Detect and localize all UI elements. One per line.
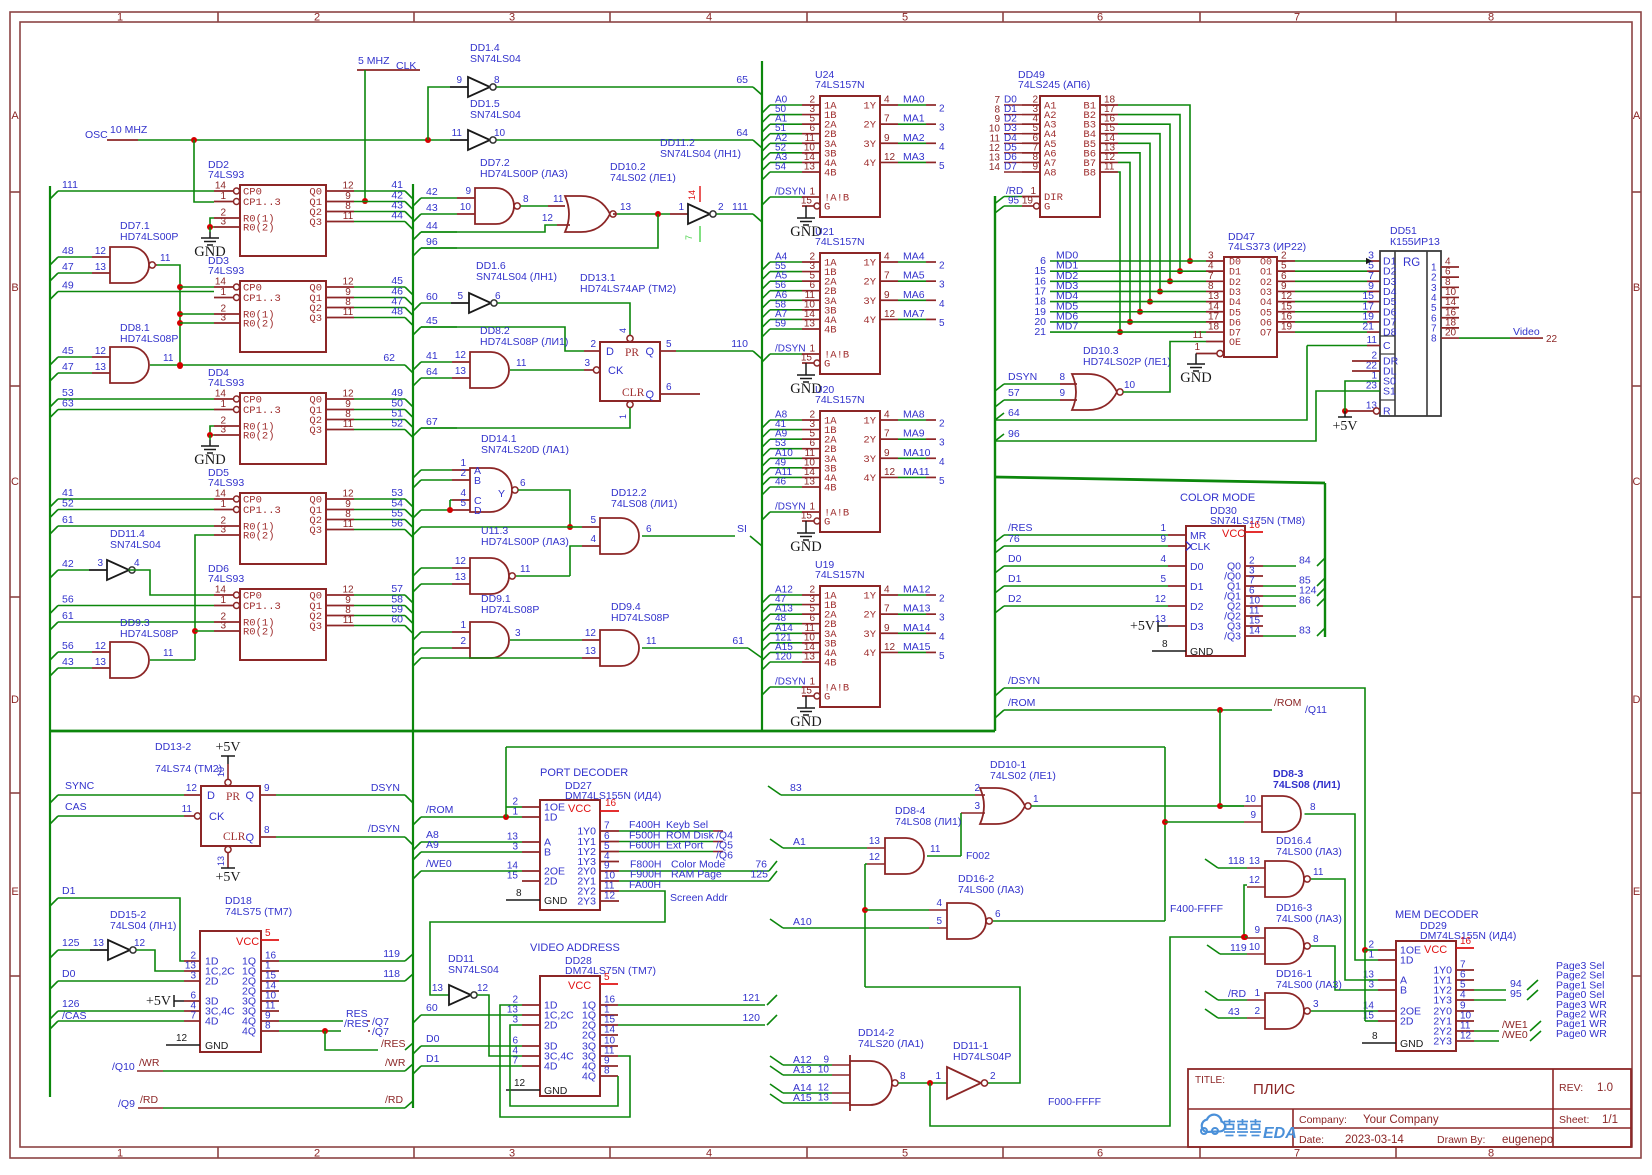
DD27 pin 6 1Y1 [600,841,619,843]
DD8-3 pin 10 input from /ROM [1244,805,1262,807]
U19 pin 14 4A net A15 [762,652,770,660]
svg-text:G: G [824,359,830,371]
svg-text:13: 13 [869,836,881,847]
svg-text:5: 5 [457,291,463,302]
DD29 pin 15 2D [1378,1020,1396,1022]
svg-text:83: 83 [1299,625,1311,637]
svg-text:4: 4 [706,12,712,24]
DD49 pin 16 B3 wire to MD2 [1100,123,1118,125]
net 57 to DD10.3 pin 9 [995,400,1004,407]
svg-text:6: 6 [495,291,501,302]
svg-text:S1: S1 [1383,386,1396,398]
net /RD to DD16-1 pin 1 [1205,991,1218,1000]
DD28 pin 10 3Q [600,1045,618,1047]
svg-text:Q3: Q3 [309,313,322,325]
DD27 pin 9 2Y0 [600,870,619,872]
svg-text:2Y: 2Y [863,277,876,289]
svg-text:3: 3 [939,613,945,624]
U20 pin 11 3A net A10 [762,458,770,466]
svg-text:4D: 4D [205,1016,219,1028]
svg-text:CLK: CLK [1190,541,1210,553]
wire DD5 R0(2) down to DD6 R0(2) / DD9.3 out [195,535,214,660]
svg-text:3: 3 [509,1148,515,1160]
svg-text:45: 45 [62,345,74,357]
U24 pin 1 !A!B net /DSYN [762,197,770,205]
svg-text:2: 2 [314,1148,320,1160]
DD47 pin 19 O7 wire to DD51 D8 [1277,331,1295,333]
svg-text:10: 10 [1245,794,1257,805]
svg-text:14: 14 [215,389,227,400]
net RES /Q7 DD18 4Q [279,1020,343,1022]
svg-text:HD74LS74AP (TM2): HD74LS74AP (TM2) [580,283,676,295]
DD6 pin 14 CP0 [214,594,233,596]
svg-text:Q: Q [645,346,654,358]
svg-text:7: 7 [1294,1148,1300,1160]
DD5 pin 12 Q0 [326,498,354,500]
svg-text:3: 3 [939,438,945,449]
wire net 57 to right rail [354,594,405,596]
wire DD7.1 output to DD3 CP0 and R0 pins [157,265,180,366]
bus entry on rail 413 [413,871,421,879]
svg-text:20: 20 [1445,328,1457,339]
svg-text:6: 6 [995,909,1001,920]
svg-text:G: G [824,517,830,529]
svg-text:12: 12 [884,152,896,163]
net CAS to DD13-2 CK pin 11 [50,816,58,824]
svg-text:60: 60 [426,1002,438,1014]
svg-text:12: 12 [342,389,354,400]
svg-text:/Q7: /Q7 [372,1026,389,1038]
svg-text:D: D [11,694,19,706]
svg-text:4B: 4B [824,324,837,336]
svg-text:9: 9 [264,783,270,794]
svg-text:К155ИР13: К155ИР13 [1390,236,1440,248]
svg-text:HD74LS08P: HD74LS08P [120,628,178,640]
svg-text:5: 5 [939,651,945,662]
wire OSC to DD2 CP1 [194,140,214,202]
svg-text:18: 18 [1208,322,1220,333]
DD13.1 /Q pin 6 stub [660,393,700,395]
DD49 pin 13 B6 wire to MD5 [1100,152,1118,154]
DD28 pin 11 3Q [600,1055,618,1057]
svg-text:R0(2): R0(2) [243,531,275,543]
DD8.2 output 11 to DD13.1 CK [510,369,584,371]
U21 pin 13 4B net 59 [762,329,770,337]
bus entry net 60 on rail 413 [413,303,421,311]
svg-text:+5V: +5V [1332,419,1357,434]
svg-text:10 MHZ: 10 MHZ [110,124,148,136]
U21 pin 7 2Y net MA5 [880,280,898,282]
svg-text:1: 1 [220,499,226,510]
svg-text:OE: OE [1229,338,1241,349]
svg-text:5 MHZ: 5 MHZ [358,55,390,67]
svg-text:59: 59 [775,318,787,329]
svg-text:74LS245 (АП6): 74LS245 (АП6) [1018,79,1090,91]
DD28 pin 3 2D [522,1024,540,1026]
wire DD11-1 output to F000 net [865,987,1020,1083]
svg-text:14: 14 [215,489,227,500]
svg-text:EDA: EDA [1263,1125,1297,1142]
svg-text:3: 3 [220,313,226,324]
left bus rail vertical [49,186,51,1097]
svg-text:11: 11 [343,519,354,530]
DD4 pin 14 CP0 [214,398,233,400]
DD29 pin 14 2OE [1378,1010,1396,1012]
DD2 pin 8 Q2 [326,211,354,213]
svg-text:D2: D2 [1008,593,1022,605]
DD8.1 pin 13 input net 47 [50,373,58,381]
svg-text:/Q3: /Q3 [1224,631,1241,643]
svg-text:12: 12 [342,489,354,500]
svg-text:Q3: Q3 [309,525,322,537]
wire F400 junction up to DD16.4 pin 12 [1244,936,1245,938]
DD28 pin 12 GND [506,1089,540,1091]
DD8.1 pin 12 input net 45 [50,357,58,365]
svg-text:D1: D1 [1008,573,1022,585]
net A1 to DD8-4 pin 13 [770,839,783,848]
DD47 pin 6 O2 wire to DD51 D3 [1277,280,1295,282]
svg-text:3: 3 [220,425,226,436]
svg-text:9: 9 [1254,925,1260,936]
svg-text:49: 49 [62,280,74,292]
svg-text:MA4: MA4 [903,251,925,263]
svg-text:11: 11 [1193,330,1204,341]
wire net 58 to right rail [354,605,405,607]
svg-text:10: 10 [460,202,472,213]
svg-text:HD74LS02P (ЛЕ1): HD74LS02P (ЛЕ1) [1083,356,1171,368]
svg-text:4: 4 [939,142,945,153]
svg-text:8: 8 [1310,802,1316,813]
U20 pin 2 1A net A8 [762,420,770,428]
net 95 DD29 1Y3 [1474,999,1506,1001]
svg-text:3Y: 3Y [863,629,876,641]
bus entry on rail 413 [413,842,421,850]
svg-text:57: 57 [1008,387,1020,399]
bus entry on rail 413 [413,568,421,576]
svg-text:4: 4 [884,95,890,106]
wire net 45 to right rail [354,286,405,288]
DD2 pin 1 CP1..3 [214,201,233,203]
svg-text:D7: D7 [1004,161,1017,172]
svg-text:13: 13 [455,572,467,583]
U20 pin 14 4A net A11 [762,477,770,485]
svg-text:5: 5 [460,498,466,509]
DD47 pin 12 O4 wire to DD51 D5 [1277,301,1295,303]
wire net 56 to right rail [354,529,405,531]
svg-text:13: 13 [216,856,226,866]
svg-text:13: 13 [585,646,597,657]
wire net 59 to right rail [354,615,405,617]
svg-text:62: 62 [383,352,395,364]
net A15 to DD14-2 pin 13 [770,1094,783,1103]
DD11.2 power pin 7 flag [699,226,701,242]
bus entry net 42 on rail 413 [413,198,421,206]
svg-text:4: 4 [590,534,596,545]
svg-text:21: 21 [1362,321,1374,333]
svg-text:HD74LS08P: HD74LS08P [481,604,539,616]
U24 pin 11 3A net A2 [762,143,770,151]
svg-text:/RD: /RD [1228,988,1247,1000]
svg-text:96: 96 [1008,428,1020,440]
DD6 pin 12 Q0 [326,594,354,596]
net F600H Ext Port /Q6 [619,851,713,853]
svg-text:2: 2 [460,636,466,647]
DD27 pin 12 2Y3 [600,900,619,902]
U24 pin 6 2B net 51 [762,134,770,142]
svg-text:12: 12 [884,309,896,320]
svg-text:CK: CK [608,365,624,377]
svg-text:74LS93: 74LS93 [208,265,244,277]
U20 pin 4 1Y net MA8 [880,419,898,421]
svg-text:74LS02 (ЛЕ1): 74LS02 (ЛЕ1) [610,172,676,184]
svg-text:4: 4 [939,632,945,643]
DD5 pin 1 CP1..3 [214,509,233,511]
DD11.2 power pin 14 flag [699,186,701,202]
svg-text:1: 1 [618,414,628,419]
DD5 pin 3 R0(2) [214,534,240,536]
DD11.4 pin 3 input net 42 [50,570,58,578]
wire net 46 to right rail [354,297,405,299]
svg-text:R0(2): R0(2) [243,431,275,443]
svg-text:VCC: VCC [1424,944,1447,956]
svg-text:74LS157N: 74LS157N [815,394,865,406]
svg-text:5: 5 [1160,574,1166,585]
net /WE1 DD29 2Y2 [1474,1030,1499,1032]
svg-text:2: 2 [314,12,320,24]
DD6 pin 8 Q2 [326,615,354,617]
U21 pin 3 1B net 55 [762,272,770,280]
bus entry on rail 413 [413,510,421,518]
U21 pin 5 2A net A5 [762,281,770,289]
svg-text:3: 3 [220,525,226,536]
svg-text:8: 8 [264,825,270,836]
svg-text:8: 8 [1431,334,1437,345]
DD18 pin 9 4Q [261,1020,279,1022]
svg-text:11: 11 [1367,335,1378,346]
DD51 pin 13 R with bubble and +5V [1373,408,1379,414]
thick horizontal bus wire divider [50,730,995,733]
svg-text:GND: GND [544,1085,568,1097]
svg-text:MA1: MA1 [903,113,925,125]
svg-text:47: 47 [62,261,74,273]
svg-text:GND: GND [790,539,821,555]
DD30 pin 1 MR net /RES [995,535,1004,542]
svg-text:B: B [474,475,481,487]
svg-text:61: 61 [62,514,74,526]
svg-text:12: 12 [134,938,146,949]
U21 pin 15 G with ground [802,362,814,364]
net F900H RAM Page 125 [619,880,769,882]
net 121 DD28 1Q [618,1004,765,1006]
svg-text:F400-FFFF: F400-FFFF [1170,903,1223,915]
DD18 pin 14 2Q [261,990,279,992]
svg-text:4: 4 [884,585,890,596]
net 53 to DD4 CP0 [50,399,58,407]
svg-text:3: 3 [1368,980,1374,991]
svg-text:19: 19 [1022,196,1034,207]
net 41 to DD5 CP0 [50,499,58,507]
U24 pin 2 1A net A0 [762,105,770,113]
svg-text:MA15: MA15 [903,641,931,653]
svg-text:74LS93: 74LS93 [208,477,244,489]
U24 pin 4 1Y net MA0 [880,104,898,106]
svg-text:1/1: 1/1 [1602,1114,1618,1126]
U19 pin 1 !A!B net /DSYN [762,687,770,695]
svg-text:10: 10 [818,1065,830,1076]
svg-text:76: 76 [1008,533,1020,545]
svg-text:GND: GND [205,1040,229,1052]
svg-text:7: 7 [884,114,890,125]
svg-text:121: 121 [742,992,760,1004]
svg-text:2: 2 [974,783,980,794]
svg-text:1Y: 1Y [863,101,876,113]
svg-text:SN74LS04 (ЛН1): SN74LS04 (ЛН1) [660,148,741,160]
U24 pin 12 4Y net MA3 [880,161,898,163]
net F800H Color Mode 76 [619,870,769,872]
DD16-3 pin 9 input from F400 [1245,936,1247,938]
DD27 pin 4 1Y3 [600,861,619,863]
svg-text:+5V: +5V [146,994,171,1009]
bus entry on rail 413 [413,480,421,488]
svg-text:11: 11 [343,307,354,318]
svg-text:119: 119 [383,948,400,960]
U20 pin 9 3Y net MA10 [880,457,898,459]
DD29 pin 13 A [1378,979,1396,981]
net /DSYN long wire to DD29 [995,688,1004,696]
DD28 pin 15 2Q [600,1024,618,1026]
svg-text:12: 12 [514,1078,526,1089]
svg-text:21: 21 [1034,326,1046,338]
U19 pin 10 3B net 121 [762,643,770,651]
svg-text:DD13-2: DD13-2 [155,741,191,753]
net 63 to DD4 CP1 [50,410,58,418]
svg-text:13: 13 [95,657,107,668]
DD18 pin 15 2Q [261,980,279,982]
svg-text:4: 4 [884,410,890,421]
svg-text:3: 3 [220,621,226,632]
U24 pin 13 4B net 54 [762,172,770,180]
svg-text:14: 14 [687,190,697,200]
svg-text:4B: 4B [824,167,837,179]
svg-text:74LS00 (ЛА3): 74LS00 (ЛА3) [1276,913,1342,925]
svg-text:74LS373 (ИР22): 74LS373 (ИР22) [1228,241,1306,253]
wire net 49 to right rail [354,398,405,400]
svg-text:B: B [11,282,18,294]
svg-text:/ROM: /ROM [1008,697,1035,709]
svg-text:/RES: /RES [344,1018,369,1030]
U11.3 output 11 [516,575,570,577]
U19 pin 3 1B net 47 [762,605,770,613]
svg-text:5: 5 [604,972,610,983]
svg-text:Your Company: Your Company [1363,1114,1439,1126]
svg-text:95: 95 [1510,988,1522,1000]
U20 pin 3 1B net 41 [762,430,770,438]
svg-text:1: 1 [117,12,123,24]
svg-text:74LS157N: 74LS157N [815,79,865,91]
svg-text:12: 12 [455,556,467,567]
DD49 pin 19 G net 95 [995,206,1004,213]
svg-text:A: A [1633,110,1641,122]
DD9.4 output 11 / net 61 to rail 762 [642,647,748,649]
DD2 pin 3 R0(2) [214,226,240,228]
svg-text:12: 12 [186,783,198,794]
DD29 pin 1 1D [1378,959,1396,961]
wire net 51 to right rail [354,419,405,421]
DD7.2 output 8 to DD10.2 input 11 [521,205,549,207]
svg-text:A8: A8 [1044,167,1057,179]
svg-text:8: 8 [523,194,529,205]
svg-text:14: 14 [215,181,227,192]
svg-text:SN74LS04: SN74LS04 [110,539,161,551]
wire 1OE to /ROM net [505,747,507,817]
svg-text:11: 11 [553,194,564,205]
svg-text:2Y3: 2Y3 [577,896,596,908]
DD4 pin 1 CP1..3 [214,409,233,411]
DD16-2 pin 4 input from F000 junction [865,909,929,911]
svg-text:CP1..3: CP1..3 [243,405,281,417]
svg-text:1: 1 [1033,794,1039,805]
svg-text:2: 2 [718,202,724,213]
bus entry on rail 413 [413,1046,421,1054]
U19 pin 13 4B net 120 [762,662,770,670]
DD18 pin 12 GND [166,1044,200,1046]
svg-text:8: 8 [1162,639,1168,650]
svg-text:MD7: MD7 [1056,321,1078,333]
svg-text:13: 13 [804,161,816,172]
svg-text:47: 47 [62,361,74,373]
wire net 42 to right rail [354,201,405,203]
svg-text:SN74LS20D (ЛА1): SN74LS20D (ЛА1) [481,444,569,456]
DD16.4 pin 12 input from F400 [1247,886,1265,888]
U24 pin 7 2Y net MA1 [880,123,898,125]
wire net 48 to right rail [354,317,405,319]
svg-text:22: 22 [1546,334,1558,345]
svg-text:11: 11 [1104,161,1115,172]
DD4 pin 2 R0(1) [214,425,240,427]
net SYNC to DD13-2 D pin 12 [50,795,58,803]
net A12 to DD14-2 pin 9 [770,1056,783,1065]
svg-text:/Q10: /Q10 [112,1061,135,1073]
svg-text:12: 12 [176,1033,188,1044]
DD27 pin 11 2Y2 [600,890,619,892]
DD29 pin 4 1Y3 [1456,999,1474,1001]
U21 pin 9 3Y net MA6 [880,299,898,301]
right section bus rail x=762 [761,61,763,731]
wire DD11 out to DD28 3C,4C [477,995,522,1056]
bus entry net 44 on rail 413 [413,232,421,240]
DD18 pin 1 1Q [261,970,279,972]
svg-text:C: C [1383,340,1391,352]
svg-text:G: G [824,202,830,214]
DD3 pin 12 Q0 [326,286,354,288]
DD18 pin 11 3Q [261,1010,279,1012]
DD5 pin 11 Q3 [326,529,354,531]
svg-text:Q3: Q3 [309,217,322,229]
DD12.2 input 4 from U11.3 output [582,545,600,547]
DD6 pin 2 R0(1) [214,621,240,623]
svg-text:9: 9 [1032,161,1038,172]
DD6 pin 9 Q1 [326,605,354,607]
svg-text:10: 10 [494,128,506,139]
svg-text:12: 12 [604,891,616,902]
svg-text:54: 54 [775,161,787,172]
svg-text:CLR: CLR [622,387,645,399]
svg-text:15: 15 [507,871,519,882]
svg-text:42: 42 [62,558,74,570]
svg-text:46: 46 [775,476,787,487]
DD6 pin 11 Q3 [326,625,354,627]
svg-text:5: 5 [590,515,596,526]
